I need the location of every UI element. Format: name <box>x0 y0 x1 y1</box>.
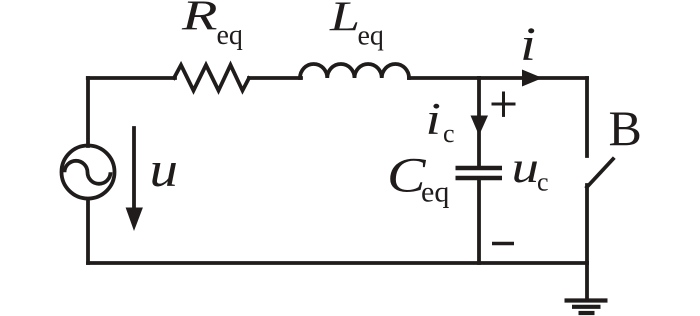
label u_c <box>512 143 549 197</box>
svg-text:eq: eq <box>421 176 449 209</box>
ground bar 2 <box>572 305 601 309</box>
svg-text:u: u <box>512 143 540 192</box>
label i_c <box>426 94 455 148</box>
ground bar 3 <box>579 311 595 315</box>
current arrow i on top wire <box>522 70 543 87</box>
svg-text:R: R <box>181 0 218 40</box>
svg-text:c: c <box>537 168 549 197</box>
capacitor branch lower wire <box>477 180 481 263</box>
left vertical wire upper <box>86 78 90 146</box>
ground stem <box>585 263 589 300</box>
inductor Leq coils <box>300 64 409 78</box>
svg-text:eq: eq <box>217 20 243 51</box>
bottom wire <box>88 261 587 265</box>
label R_eq <box>181 0 243 51</box>
current arrow ic head <box>471 116 489 136</box>
node junction capacitor top <box>477 76 481 80</box>
minus sign <box>492 242 514 245</box>
switch B blade <box>587 159 613 187</box>
svg-text:L: L <box>329 0 360 40</box>
plus sign <box>493 93 514 115</box>
wire top-left horizontal <box>88 76 175 80</box>
right branch lower wire <box>585 185 589 263</box>
wire inductor to top-right corner <box>409 76 587 80</box>
wire between resistor and inductor <box>249 76 301 80</box>
svg-text:i: i <box>520 18 536 71</box>
svg-text:i: i <box>426 94 442 144</box>
capacitor branch upper wire <box>477 78 481 166</box>
svg-text:u: u <box>150 141 179 197</box>
ground bar 1 <box>565 298 608 302</box>
capacitor Ceq top plate <box>456 166 503 170</box>
right branch upper wire <box>585 78 589 156</box>
AC source circle <box>62 146 115 199</box>
label C_eq <box>387 147 449 209</box>
svg-text:c: c <box>443 119 455 148</box>
svg-text:eq: eq <box>358 21 384 52</box>
resistor Req zigzag <box>174 65 249 91</box>
capacitor Ceq bottom plate <box>456 176 503 180</box>
svg-text:B: B <box>609 100 642 156</box>
voltage arrow u head <box>126 208 143 232</box>
label L_eq <box>329 0 384 51</box>
voltage arrow u shaft <box>132 128 136 212</box>
AC source sine wave <box>65 161 111 184</box>
left vertical wire lower <box>86 199 90 263</box>
